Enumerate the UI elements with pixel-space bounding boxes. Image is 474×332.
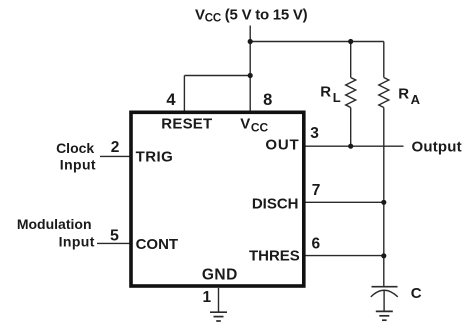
resistor RA zigzag: [379, 78, 389, 108]
wire pin 6 line: [305, 255, 384, 257]
svg-text:RESET: RESET: [161, 116, 212, 133]
svg-text:Input: Input: [59, 234, 95, 250]
wire pin 7 line: [305, 201, 384, 203]
svg-text:VCC (5 V to 15 V): VCC (5 V to 15 V): [195, 6, 308, 24]
wire RESET branch horizontal: [184, 75, 250, 77]
svg-text:VCC: VCC: [240, 116, 268, 135]
svg-text:7: 7: [312, 182, 321, 199]
svg-text:RA: RA: [398, 86, 420, 107]
node junction RL top: [348, 39, 353, 44]
svg-text:Clock: Clock: [56, 140, 94, 156]
svg-text:CONT: CONT: [136, 236, 179, 253]
ground capacitor: [376, 310, 393, 312]
node junction RESET branch: [248, 73, 253, 78]
svg-text:Input: Input: [60, 157, 96, 173]
node junction pin 6 / RA: [381, 253, 386, 258]
svg-text:6: 6: [311, 235, 320, 252]
svg-text:TRIG: TRIG: [136, 148, 174, 165]
svg-text:1: 1: [202, 289, 211, 306]
wire pin 2 line: [100, 155, 130, 157]
wire RL lower segment: [350, 108, 352, 147]
svg-text:4: 4: [166, 91, 176, 109]
wire pin 3 output line: [305, 145, 404, 147]
svg-text:RL: RL: [320, 84, 340, 105]
svg-text:Modulation: Modulation: [17, 216, 92, 232]
svg-text:THRES: THRES: [249, 247, 300, 264]
wire RL upper segment: [350, 42, 352, 78]
svg-text:DISCH: DISCH: [252, 195, 299, 212]
node junction VCC rail left: [248, 39, 253, 44]
wire VCC stem: [249, 26, 251, 112]
svg-text:OUT: OUT: [265, 136, 299, 153]
node junction RL bottom / output: [348, 144, 353, 149]
capacitor C top plate: [372, 286, 398, 288]
svg-text:Output: Output: [412, 139, 462, 156]
node junction pin 7 / RA: [381, 200, 386, 205]
wire pin 1 line: [218, 288, 220, 312]
ground pin 1: [210, 311, 227, 313]
svg-text:2: 2: [111, 139, 120, 156]
svg-text:5: 5: [110, 227, 119, 244]
wire RESET branch vertical to pin 4: [183, 76, 185, 112]
resistor RL zigzag: [346, 78, 356, 108]
wire top horizontal VCC rail: [250, 41, 384, 43]
svg-text:3: 3: [310, 125, 319, 142]
wire pin 5 line: [97, 242, 130, 244]
wire RA upper segment: [383, 42, 385, 78]
capacitor C curved bottom plate: [371, 290, 398, 297]
svg-text:GND: GND: [202, 267, 238, 284]
wire RA lower segment down to capacitor: [383, 108, 385, 287]
wire capacitor to ground: [383, 291, 385, 312]
svg-text:C: C: [411, 285, 422, 302]
svg-text:8: 8: [263, 91, 272, 109]
IC U1 555 timer body: [131, 112, 304, 286]
